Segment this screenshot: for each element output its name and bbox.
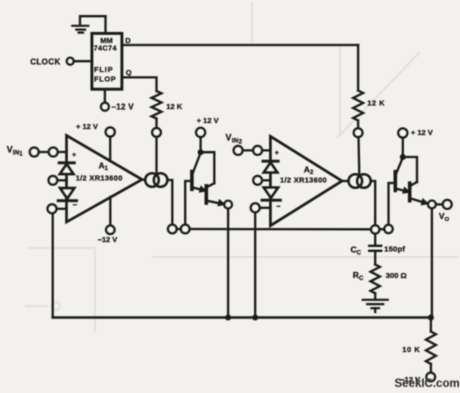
terminal pair below M1 — [168, 225, 177, 234]
resistor R4 RC 300ohm — [371, 265, 380, 294]
terminal A2 diode bias — [253, 176, 262, 185]
wire A2 output stub — [342, 180, 349, 182]
current mirror M1 (A1 output circles) — [145, 173, 159, 187]
flip-flop U1 MM74C74 box — [92, 33, 122, 89]
terminal -12V bottom — [426, 373, 435, 382]
wire R3 to -12V terminal — [430, 364, 432, 373]
bus (bottom ground rail) — [53, 316, 431, 319]
terminal pair below M2 (compensation node) — [371, 225, 379, 233]
wire R2 to terminal — [357, 121, 359, 129]
wire R1 to terminal — [155, 119, 157, 129]
svg-text:1/2 XR13600: 1/2 XR13600 — [280, 176, 327, 185]
wire R2 terminal to A2 bias input — [357, 137, 360, 175]
terminal A2 inverting input — [251, 203, 260, 212]
wire emitter to VO terminal — [436, 203, 443, 205]
svg-text:–12 V: –12 V — [98, 235, 118, 244]
wire CLOCK to flip-flop — [74, 60, 92, 62]
wire +12V down to collector node — [199, 137, 201, 152]
terminal VIN2 — [234, 146, 243, 155]
wire Q2 emitter to bus — [227, 208, 229, 317]
wire flip-flop -12V pin — [104, 89, 106, 103]
resistor R1 12K (Q side) — [152, 91, 162, 119]
svg-text:+ 12 V: + 12 V — [76, 122, 98, 131]
CLOCK terminal — [67, 58, 74, 65]
current mirror M2 (A2 output circles) — [349, 174, 363, 188]
svg-text:FLIP: FLIP — [94, 65, 113, 74]
terminal +12V A1 — [106, 128, 115, 137]
node bus/Q2 emitter — [225, 315, 231, 321]
wire A1 output stub — [142, 178, 145, 181]
resistor R3 10K — [430, 318, 432, 332]
capacitor C1 CC 150pf — [369, 234, 381, 265]
svg-text:1/2 XR13600: 1/2 XR13600 — [76, 174, 123, 183]
svg-text:D: D — [125, 36, 131, 45]
svg-text:150pf: 150pf — [384, 245, 405, 254]
svg-text:300 Ω: 300 Ω — [386, 271, 407, 280]
wire link between pair — [177, 228, 181, 230]
svg-text:+ 12 V: + 12 V — [411, 128, 433, 137]
wire +12V down to collector node — [402, 138, 404, 158]
svg-text:74C74: 74C74 — [94, 44, 118, 53]
transistor Q4 — [410, 182, 429, 205]
terminal VIN1 — [30, 148, 39, 157]
op-amp A2 triangle — [270, 136, 342, 225]
wire output down to bus — [431, 208, 433, 317]
ground (top-left, flip-flop preset pin) — [72, 16, 105, 32]
svg-text:+: + — [72, 152, 76, 159]
svg-text:Q: Q — [126, 68, 132, 77]
terminal VO — [443, 200, 452, 209]
terminal Q4 emitter — [428, 201, 436, 209]
wire VIN1 links — [39, 151, 67, 153]
watermark SeekIC.com — [395, 378, 460, 390]
resistor R2 12K (D side) — [357, 45, 359, 91]
svg-text:SeekIC.com: SeekIC.com — [395, 378, 460, 390]
terminal A1 diode bias — [49, 176, 58, 185]
wire collector branch to Q4 — [403, 157, 417, 182]
wire -12V pin A1 — [109, 197, 111, 226]
node collector junction Q1 — [198, 149, 204, 155]
terminal -12V A1 — [106, 226, 114, 234]
svg-text:CLOCK: CLOCK — [30, 57, 60, 66]
diode D3 (A2 upper, cathode up) — [263, 160, 278, 163]
transistor Q2 — [206, 183, 225, 206]
node bus/A2 input — [252, 315, 258, 321]
wire +12V pin A1 — [109, 137, 111, 162]
svg-text:10 K: 10 K — [402, 345, 420, 354]
wire link between pair — [379, 228, 384, 230]
wire diode junction to bias terminal A2 — [262, 179, 271, 181]
wire collector branch to Q2 — [201, 152, 215, 183]
wire riser to Q3 base — [389, 183, 396, 225]
terminal VIN1 inner — [49, 148, 58, 157]
transistor Q3 — [395, 158, 409, 193]
wire M1 output right and down — [167, 180, 172, 225]
svg-text:+: + — [275, 150, 279, 157]
wire long node line to compensation node — [190, 228, 372, 231]
svg-text:12 K: 12 K — [367, 99, 385, 108]
svg-text:12 K: 12 K — [166, 102, 182, 111]
wire ground to flip-flop top — [104, 16, 106, 33]
ghost artifacts (decorative scan bleed) — [25, 2, 458, 332]
wire RC to ground — [374, 293, 376, 300]
terminal VIN2 inner — [253, 146, 262, 155]
op-amp A1 triangle — [67, 136, 143, 223]
wire diode junction to bias terminal A1 — [57, 179, 66, 181]
node bus/output branch — [428, 315, 434, 321]
wire M2 output right and down — [371, 181, 376, 225]
ground (below RC) — [363, 300, 388, 312]
svg-text:FLOP: FLOP — [94, 75, 116, 84]
wire A2 inv input down to bus — [254, 212, 256, 317]
svg-text:–12 V: –12 V — [112, 103, 135, 112]
wire A1 inv input down to bus — [52, 213, 54, 317]
wire VIN2 links — [243, 149, 271, 151]
wire A1 inverting input — [56, 208, 66, 210]
diode D4 (A2 lower, outline, cathode down) — [264, 188, 278, 198]
transistor Q1 — [192, 153, 206, 192]
wire A2 inverting input — [260, 207, 271, 209]
node collector junction Q3 — [400, 154, 406, 160]
terminal A1 inverting input — [48, 204, 57, 213]
terminal below R2 — [354, 128, 363, 137]
terminal -12V flip-flop — [101, 103, 109, 111]
terminal +12V (output darlington) — [398, 129, 407, 138]
wire R1 terminal to A1 bias input — [155, 137, 157, 174]
svg-text:–: – — [276, 202, 280, 211]
svg-text:+ 12 V: + 12 V — [197, 116, 219, 125]
diode D2 (A1 lower, outline, cathode down) — [60, 188, 74, 198]
terminal Q2 emitter — [224, 201, 232, 209]
terminal below R1 — [152, 128, 161, 137]
wire riser to Q1 base — [185, 181, 192, 225]
diode D1 (A1 upper, cathode up) — [59, 161, 74, 164]
svg-text:–: – — [73, 200, 77, 209]
wire D output — [122, 44, 358, 46]
wire Q output — [122, 77, 157, 91]
terminal +12V (darlington Q1/Q2) — [196, 128, 205, 137]
